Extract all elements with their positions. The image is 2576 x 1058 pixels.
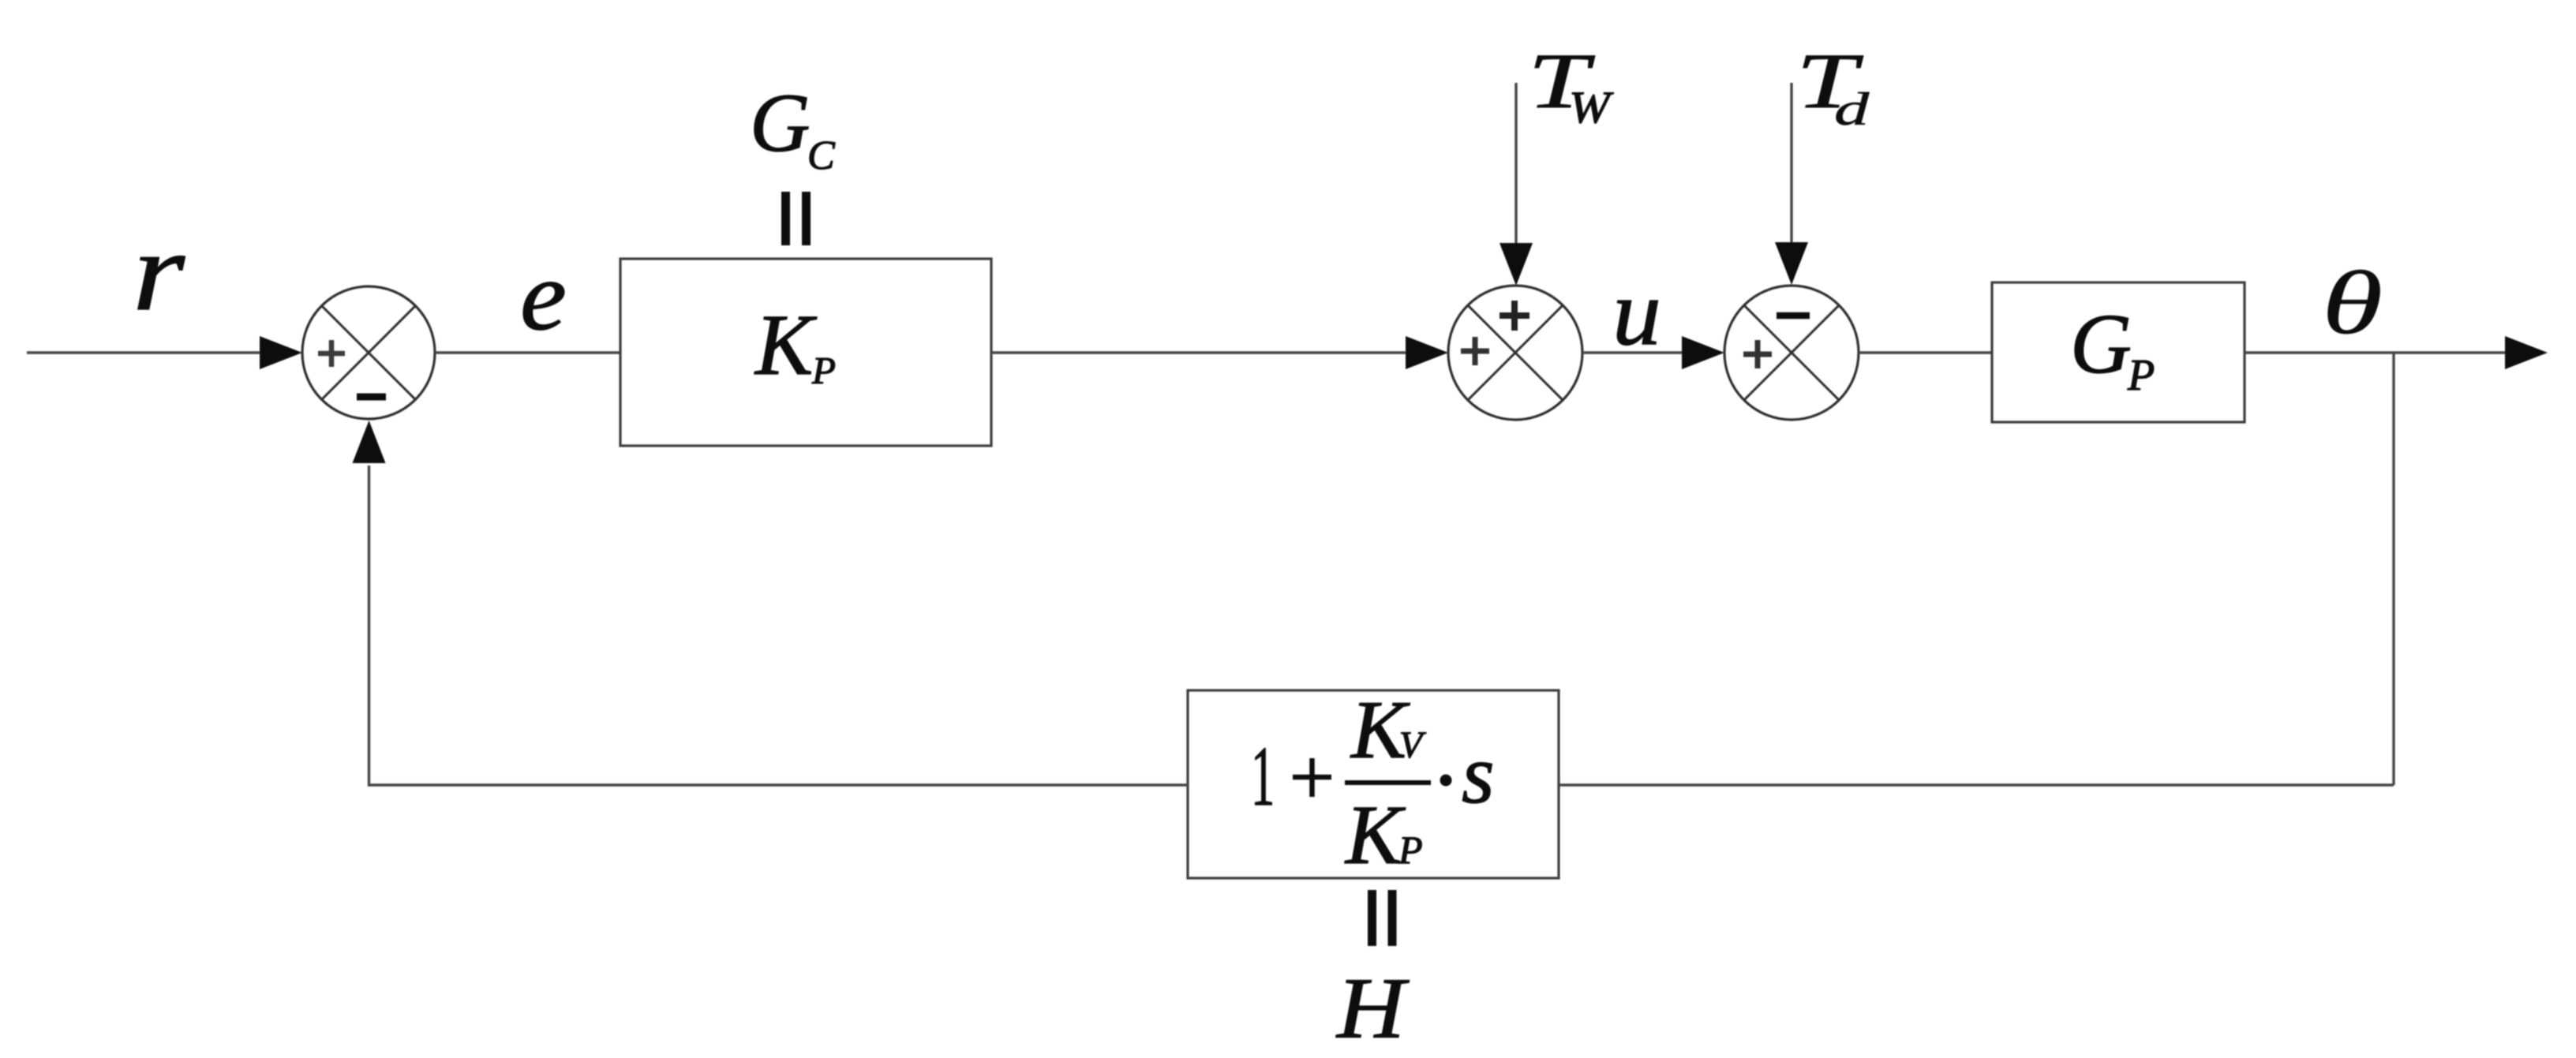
svg-text:G: G [750,77,811,169]
wire KP to S2 [991,351,1408,353]
arrowhead into summing junction S1 [260,336,302,369]
S3 minus sign (top input) [1777,312,1810,320]
summing junction S1 circle [302,286,435,419]
S1 cross line NW-SE [322,306,416,400]
svg-text:θ: θ [2322,253,2383,353]
svg-text:r: r [133,208,185,334]
S2 plus sign (left input) [1461,349,1489,354]
block H rectangle [1188,690,1559,878]
feedback wire right segment [1559,783,2394,786]
T_W disturbance arrow line [1515,83,1517,245]
feedback wire up segment [368,465,370,787]
summing junction S2 circle [1448,286,1582,420]
H block: fraction bar [1345,780,1431,785]
S1 cross line SW-NE [322,306,416,400]
arrowhead T_W down into S2 [1500,243,1533,286]
node branch point wire down [2392,353,2394,785]
wire e: S1 to KP block [435,351,620,353]
S2 cross line NW-SE [1468,305,1563,400]
H block: plus sign [1293,775,1331,780]
svg-text:e: e [520,241,567,350]
svg-text:u: u [1612,260,1661,365]
S2 cross line SW-NE [1468,305,1563,400]
svg-text:W: W [1569,82,1614,132]
S3 cross line SW-NE [1744,305,1839,400]
arrowhead into S2 [1406,336,1448,369]
svg-text:1: 1 [1251,729,1275,824]
S3 cross line NW-SE [1744,305,1839,400]
svg-text:C: C [807,133,836,178]
block GP rectangle [1992,282,2245,422]
svg-text:P: P [811,349,836,392]
S3 plus sign (left input) [1743,352,1772,357]
svg-text:K: K [1344,789,1406,882]
S1 minus sign (bottom input) [357,394,386,401]
output arrowhead [2505,336,2548,369]
svg-text:P: P [1398,828,1423,872]
wire GP to output [2245,351,2507,353]
arrowhead T_d down into S3 [1775,242,1808,285]
svg-text:P: P [2127,351,2155,400]
arrowhead into S3 [1682,336,1724,369]
svg-text:G: G [2070,297,2132,391]
S1 plus sign (left input) [318,351,345,357]
wire S2 to S3 [1582,351,1684,353]
svg-text:s: s [1462,728,1495,821]
T_d disturbance arrow line [1790,83,1792,245]
feedback wire left segment [368,783,1188,786]
equals (rotated) below H block [1368,890,1376,946]
equals (rotated) between G_C and KP block [781,192,790,245]
summing junction S3 circle [1724,286,1859,420]
block KP rectangle [620,259,991,446]
svg-text:K: K [754,297,818,393]
S2 plus sign (top input) [1500,312,1529,319]
svg-text:H: H [1335,960,1410,1056]
wire input r [27,351,262,353]
svg-text:d: d [1834,84,1870,136]
arrowhead up into S1 bottom [353,421,386,463]
H block: cdot [1440,775,1452,787]
svg-text:V: V [1399,724,1426,766]
wire S3 to GP [1859,351,1992,353]
